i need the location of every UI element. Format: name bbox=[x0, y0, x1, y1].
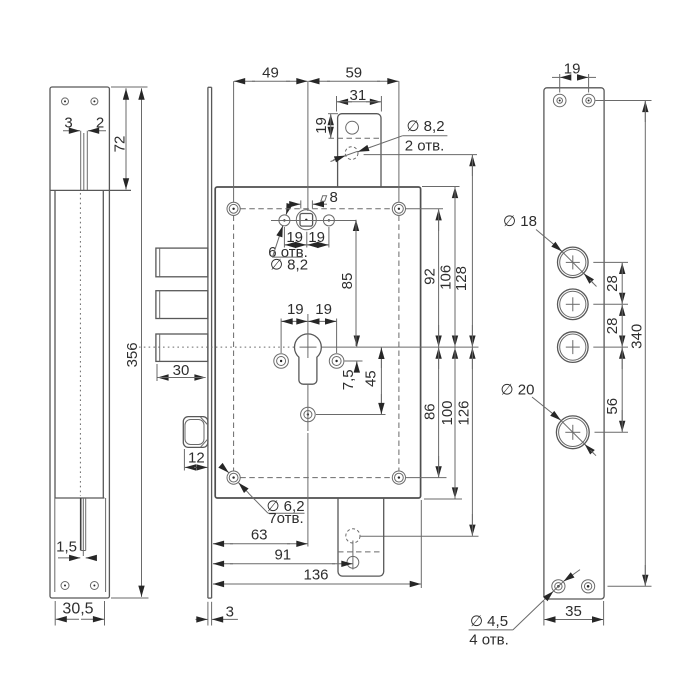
center line key hole row bbox=[271, 220, 357, 222]
corner hole bottom-left bbox=[227, 471, 240, 484]
svg-text:3: 3 bbox=[226, 604, 234, 621]
dashed line right corner holes bbox=[398, 216, 400, 471]
svg-text:72: 72 bbox=[111, 136, 128, 153]
extension line 340 bottom bbox=[608, 585, 652, 587]
extension line lower hole bbox=[316, 414, 386, 416]
extension line 126 bottom bbox=[361, 535, 479, 537]
dimension 85 bbox=[339, 220, 356, 346]
dimension 56 bbox=[604, 348, 622, 432]
dimension 49 bbox=[234, 65, 308, 82]
right view top screw hole A bbox=[553, 94, 566, 107]
center line solid right part bbox=[322, 346, 479, 348]
lower faceplate tab bbox=[338, 498, 384, 576]
corner hole top-right bbox=[392, 202, 405, 215]
cylinder key hole bbox=[295, 334, 322, 384]
svg-text:28: 28 bbox=[604, 318, 621, 335]
dimension 72 bbox=[111, 88, 128, 189]
svg-text:19: 19 bbox=[315, 301, 332, 318]
dimension 128 bbox=[453, 155, 472, 347]
dimension 340 bbox=[628, 101, 645, 586]
dimension 63 bbox=[213, 433, 308, 547]
svg-text:340: 340 bbox=[628, 324, 645, 349]
svg-text:8: 8 bbox=[330, 189, 338, 206]
dashed line left corner holes bbox=[233, 216, 235, 471]
dimension 19 19 (key holes) bbox=[284, 227, 329, 248]
left view bottom screw hole A bbox=[61, 582, 69, 590]
svg-text:7отв.: 7отв. bbox=[268, 510, 303, 527]
svg-text:1,5: 1,5 bbox=[56, 539, 77, 556]
dimension 35 bbox=[544, 601, 604, 626]
dimension 28 lower bbox=[604, 305, 622, 347]
dimension 3 (faceplate thickness) bbox=[196, 602, 238, 626]
svg-text:∅ 18: ∅ 18 bbox=[503, 213, 537, 230]
svg-text:136: 136 bbox=[303, 567, 328, 584]
svg-text:∅ 4,5: ∅ 4,5 bbox=[470, 613, 508, 630]
label diam 18 bbox=[503, 213, 596, 287]
svg-text:91: 91 bbox=[274, 547, 291, 564]
svg-text:19: 19 bbox=[308, 229, 325, 246]
left view top slot lines bbox=[81, 131, 88, 191]
right view bottom screw hole A bbox=[552, 580, 565, 593]
lower center screw hole bbox=[301, 407, 316, 422]
bore hole C1 diam 18 bbox=[558, 247, 589, 278]
svg-text:49: 49 bbox=[262, 65, 279, 82]
svg-text:35: 35 bbox=[565, 603, 582, 620]
extension line C1 bbox=[593, 261, 628, 263]
svg-text:85: 85 bbox=[339, 273, 356, 290]
left view lower plate inner lines bbox=[55, 498, 106, 592]
svg-text:30,5: 30,5 bbox=[62, 601, 93, 618]
svg-text:4 отв.: 4 отв. bbox=[469, 632, 509, 649]
dimension 19 (right view) bbox=[552, 61, 596, 93]
svg-text:30: 30 bbox=[173, 362, 190, 379]
extension line 86 bottom bbox=[406, 477, 447, 479]
lock case rectangle bbox=[215, 187, 420, 498]
left view case top line bbox=[50, 189, 131, 191]
svg-text:31: 31 bbox=[350, 87, 367, 104]
dimension 30 (bolt throw) bbox=[157, 362, 206, 381]
right view faceplate bbox=[544, 88, 604, 599]
center line below cylinder bbox=[307, 384, 309, 431]
cylinder screw hole right bbox=[329, 354, 344, 369]
deadbolt 1 bbox=[156, 248, 208, 277]
svg-text:2 отв.: 2 отв. bbox=[405, 138, 445, 155]
left view bottom slot bbox=[81, 498, 86, 556]
svg-text:19: 19 bbox=[564, 61, 581, 78]
corner hole bottom-right bbox=[392, 471, 405, 484]
svg-text:100: 100 bbox=[439, 400, 456, 425]
svg-text:3: 3 bbox=[64, 115, 72, 132]
svg-text:2: 2 bbox=[96, 115, 104, 132]
left view top screw hole A bbox=[62, 98, 69, 105]
svg-text:12: 12 bbox=[188, 450, 205, 467]
label diam 20 bbox=[501, 382, 596, 456]
svg-text:59: 59 bbox=[345, 65, 362, 82]
latch bolt side view bbox=[183, 417, 208, 448]
main dotted center line bbox=[139, 346, 295, 348]
upper faceplate tab bbox=[338, 114, 381, 187]
spindle square center dot bbox=[305, 219, 307, 221]
dimension 136 bbox=[213, 500, 421, 588]
deadbolt 2 bbox=[156, 291, 208, 319]
dimension 45 bbox=[362, 348, 381, 415]
dimension 7,5 bbox=[340, 337, 357, 390]
dashed line bottom corner holes bbox=[240, 477, 392, 479]
tab fold dashed line bbox=[329, 137, 382, 139]
left view top screw hole B bbox=[91, 98, 98, 105]
bore hole C3 diam 18 bbox=[558, 332, 589, 363]
svg-text:86: 86 bbox=[422, 403, 439, 420]
dimension 2 (slot) bbox=[88, 115, 106, 132]
key hole left (diam 8,2) bbox=[279, 215, 290, 226]
lower tab hole (solid) bbox=[347, 556, 359, 568]
extension line 49/59 middle bbox=[307, 81, 309, 211]
label diameter 8,2 2 holes bbox=[331, 118, 448, 162]
tab hole back (dashed) bbox=[345, 147, 358, 160]
lower tab fold dashed line bbox=[338, 551, 384, 553]
extension line 106 top bbox=[422, 186, 460, 188]
left view bottom screw hole B bbox=[90, 582, 98, 590]
spindle square hole bbox=[300, 214, 313, 227]
svg-text:356: 356 bbox=[124, 342, 141, 367]
extension line C4 bbox=[595, 431, 629, 433]
extension line C3 bbox=[593, 346, 628, 348]
svg-text:19: 19 bbox=[287, 301, 304, 318]
dimension 356 bbox=[124, 88, 142, 597]
dimension 19 (tab hole offset) bbox=[313, 114, 338, 138]
dimension 106 bbox=[438, 187, 455, 347]
lower tab center line bbox=[352, 541, 354, 570]
svg-text:7,5: 7,5 bbox=[340, 369, 357, 390]
dimension 30,5 bbox=[55, 601, 104, 626]
dimension 28 upper bbox=[604, 263, 622, 304]
extension line plate top right bbox=[111, 86, 148, 88]
extension line 128 top bbox=[364, 154, 477, 156]
dimension 12 (latch) bbox=[184, 449, 207, 471]
left view inner case rectangle bbox=[55, 190, 105, 498]
extension line plate bottom right bbox=[111, 597, 149, 599]
left view dotted center line bbox=[79, 193, 81, 496]
middle view faceplate edge strip bbox=[208, 87, 212, 598]
svg-text:63: 63 bbox=[251, 527, 268, 544]
extension line 49/59 left bbox=[233, 81, 235, 202]
dimension 59 bbox=[308, 65, 398, 82]
dimension 86 bbox=[422, 348, 439, 478]
extension line C2 bbox=[593, 303, 628, 305]
dimension 92 bbox=[421, 209, 438, 347]
label diam 4,5 4 holes bbox=[469, 570, 580, 649]
cylinder screw hole left bbox=[274, 354, 289, 369]
bore hole C2 diam 18 bbox=[558, 289, 589, 320]
extension line 92 top bbox=[406, 208, 444, 210]
deadbolt 3 bbox=[156, 334, 208, 361]
extension line 7,5 bbox=[345, 360, 363, 362]
dimension 3 (slot) bbox=[63, 115, 80, 132]
svg-text:92: 92 bbox=[421, 268, 438, 285]
key hole right (diam 8,2) bbox=[323, 215, 334, 226]
svg-text:45: 45 bbox=[362, 370, 379, 387]
extension line 340 top bbox=[596, 100, 652, 102]
spindle square hole circle bbox=[296, 210, 316, 230]
tab hole front (solid) bbox=[346, 121, 359, 134]
dimension 1,5 bbox=[56, 539, 94, 558]
dimension square 8 bbox=[291, 189, 338, 209]
corner hole top-left bbox=[227, 202, 240, 215]
label 6,2 7 holes bbox=[222, 466, 305, 527]
svg-text:128: 128 bbox=[453, 266, 470, 291]
svg-text:∅ 8,2: ∅ 8,2 bbox=[406, 118, 444, 135]
left view strike plate body bbox=[50, 87, 109, 598]
lower tab dashed hole bbox=[346, 529, 360, 543]
key hole center cross bbox=[300, 346, 317, 348]
right view bottom screw hole B bbox=[582, 580, 595, 593]
dimension 100 bbox=[439, 348, 456, 499]
right view top screw hole B bbox=[582, 94, 595, 107]
dimension 91 bbox=[213, 547, 353, 564]
label 6 holes diam 8,2 bbox=[268, 206, 308, 273]
svg-text:19: 19 bbox=[313, 117, 330, 134]
svg-text:56: 56 bbox=[604, 398, 621, 415]
extension line 49/59 right bbox=[398, 81, 400, 202]
dimension 19 19 (cylinder) bbox=[281, 301, 337, 358]
bore hole C4 diam 20 bbox=[556, 416, 589, 449]
dashed line top corner holes bbox=[240, 208, 392, 210]
svg-text:∅ 20: ∅ 20 bbox=[501, 382, 535, 399]
svg-text:∅ 8,2: ∅ 8,2 bbox=[270, 256, 308, 273]
svg-text:28: 28 bbox=[604, 275, 621, 292]
dimension 126 bbox=[455, 348, 472, 536]
svg-text:126: 126 bbox=[455, 400, 472, 425]
dimension 31 (tab width) bbox=[337, 87, 382, 111]
extension line 100 bottom bbox=[424, 498, 462, 500]
